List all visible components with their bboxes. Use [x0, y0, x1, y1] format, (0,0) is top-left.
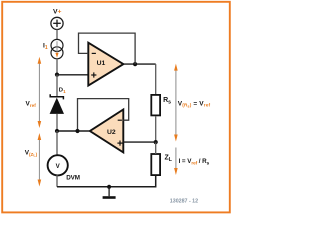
- op-amp U2: [90, 110, 123, 153]
- wire ground rail: [57, 176, 156, 187]
- wire U2 noninverting input to node C: [123, 141, 155, 143]
- svg-text:Rs: Rs: [163, 97, 171, 105]
- U2 noninverting pin mark: [117, 141, 122, 146]
- wire I1 to node A: [56, 59, 58, 75]
- wire node A to D1 cathode: [56, 75, 58, 97]
- node U2 feedback junction: [75, 129, 79, 133]
- wire U2 output to node B: [57, 130, 90, 132]
- wire U1 output: [123, 63, 155, 65]
- node ground junction: [107, 185, 111, 189]
- node U1 out junction: [133, 62, 137, 66]
- zener diode D1: [50, 94, 64, 114]
- wire D1 anode to node B: [56, 114, 58, 131]
- svg-text:D1: D1: [59, 88, 66, 94]
- U1 inverting pin mark: [92, 52, 96, 54]
- arrow Vref (left): [38, 57, 42, 128]
- wire output to Rs: [155, 64, 157, 95]
- node A junction (I1 / D1 / U1+): [55, 73, 59, 77]
- svg-text:U1: U1: [97, 60, 106, 67]
- wire U2 feedback loop: [78, 99, 129, 131]
- wire node C to ZL: [155, 142, 157, 154]
- U2 inverting pin mark: [118, 119, 122, 121]
- node B junction (D1 / DVM / U2 out): [55, 129, 59, 133]
- load ZL: [151, 154, 160, 175]
- svg-text:U2: U2: [107, 129, 116, 136]
- current source I1: [51, 39, 63, 58]
- svg-text:DVM: DVM: [66, 175, 80, 182]
- U1 noninverting pin mark: [91, 72, 96, 77]
- wire DVM to ground rail: [56, 175, 58, 187]
- arrow V(Rs) (right): [174, 64, 178, 142]
- op-amp U1: [88, 43, 123, 86]
- wire Rs to node C: [155, 116, 157, 142]
- power terminal V+: [51, 17, 63, 29]
- svg-text:130287 - 12: 130287 - 12: [170, 198, 198, 204]
- wire U1 feedback loop: [79, 33, 136, 64]
- node C junction (Rs / ZL / U2+): [154, 140, 158, 144]
- wire node A to U1 noninverting input: [57, 74, 89, 76]
- ground: [108, 187, 110, 196]
- voltmeter DVM: [48, 155, 68, 175]
- wire node B to DVM: [56, 131, 58, 155]
- resistor Rs: [151, 95, 160, 116]
- svg-text:ZL: ZL: [165, 155, 173, 163]
- wire V+ to I1: [56, 29, 58, 39]
- border frame: [2, 2, 230, 213]
- arrow V(ZL) (left): [38, 133, 42, 187]
- svg-text:V+: V+: [53, 8, 62, 15]
- arrow I (right): [174, 148, 178, 176]
